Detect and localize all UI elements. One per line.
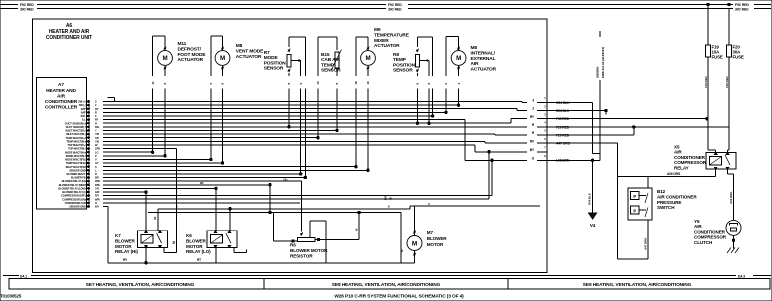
svg-text:F20 RED: F20 RED [725, 76, 729, 88]
svg-text:FOOT MODE: FOOT MODE [178, 52, 207, 58]
svg-text:TOP M/ACT(M+): TOP M/ACT(M+) [67, 143, 85, 147]
svg-text:ILL: ILL [82, 118, 86, 122]
svg-text:SOL: SOL [81, 114, 87, 118]
svg-text:R/G: R/G [95, 125, 99, 129]
svg-text:BAT: BAT [81, 110, 86, 114]
svg-text:BLOWER RELAY (A): BLOWER RELAY (A) [62, 190, 85, 194]
svg-text:BLOWER RELAY (MED): BLOWER RELAY (MED) [59, 183, 86, 187]
svg-text:R: R [95, 110, 97, 114]
svg-text:GY: GY [95, 161, 99, 165]
svg-text:30C RED: 30C RED [735, 8, 749, 12]
svg-text:SE8 HEATING, VENTILATION, AIR/: SE8 HEATING, VENTILATION, AIR/CONDITIONI… [332, 282, 441, 288]
svg-text:B/Y: B/Y [95, 205, 99, 209]
svg-text:CONDITIONER UNIT: CONDITIONER UNIT [46, 35, 92, 41]
svg-text:P: P [633, 208, 636, 213]
svg-text:TEMP: TEMP [321, 62, 335, 68]
svg-text:16: 16 [366, 81, 370, 85]
svg-text:CONDITIONER: CONDITIONER [45, 99, 78, 105]
svg-text:DEFROST/: DEFROST/ [178, 46, 202, 52]
svg-text:Y3+: Y3+ [283, 177, 288, 181]
svg-text:BLOWER M/ACT: BLOWER M/ACT [66, 172, 86, 176]
svg-text:MODE M/ACT(FB): MODE M/ACT(FB) [65, 158, 85, 162]
svg-text:INLET M/ACT(M+): INLET M/ACT(M+) [65, 129, 85, 133]
svg-text:M: M [220, 55, 225, 62]
svg-text:CLUTCH: CLUTCH [694, 240, 713, 245]
svg-text:MODE M/ACT(M-): MODE M/ACT(M-) [66, 154, 86, 158]
svg-text:TEMP M/ACT(M+): TEMP M/ACT(M+) [66, 136, 86, 140]
svg-text:LG: LG [95, 150, 98, 154]
svg-text:SENSOR GND: SENSOR GND [69, 168, 85, 172]
svg-text:FUSE: FUSE [733, 55, 744, 60]
svg-text:PRESSURE: PRESSURE [657, 200, 681, 205]
svg-text:INLET M/ACT(M-): INLET M/ACT(M-) [66, 132, 86, 136]
svg-text:DUCT SENSOR(+): DUCT SENSOR(+) [65, 121, 86, 125]
svg-text:F9C RED: F9C RED [20, 3, 34, 7]
svg-text:T01030525: T01030525 [0, 294, 22, 299]
svg-text:K6: K6 [186, 233, 192, 238]
svg-text:M7: M7 [427, 230, 434, 235]
svg-text:SW (-): SW (-) [79, 103, 86, 107]
svg-text:RY: RY [95, 118, 99, 122]
svg-text:MOTOR: MOTOR [427, 242, 444, 247]
svg-text:M: M [162, 55, 167, 62]
svg-text:R6: R6 [290, 243, 296, 248]
svg-text:VENT MODE: VENT MODE [236, 48, 264, 54]
svg-text:AIR CONDITIONER: AIR CONDITIONER [657, 194, 697, 199]
svg-text:R8: R8 [393, 52, 399, 58]
svg-text:TEMPERATURE: TEMPERATURE [374, 32, 410, 38]
svg-text:AIR: AIR [471, 61, 480, 67]
svg-text:RESISTOR: RESISTOR [290, 254, 313, 259]
svg-text:CONTROLLER: CONTROLLER [45, 105, 78, 111]
svg-text:SW (+): SW (+) [78, 100, 86, 104]
svg-text:R/W: R/W [95, 183, 100, 187]
svg-text:HEATER AND: HEATER AND [46, 88, 76, 94]
svg-text:F9C RED: F9C RED [388, 3, 402, 7]
svg-text:MODE: MODE [264, 55, 279, 61]
svg-text:Y/G: Y/G [95, 186, 99, 190]
svg-text:R: R [95, 121, 97, 125]
svg-text:M8: M8 [236, 43, 243, 49]
svg-text:30C RED: 30C RED [20, 8, 34, 12]
svg-text:A47 ORG: A47 ORG [644, 237, 648, 250]
svg-text:BLOWER: BLOWER [186, 238, 206, 243]
svg-text:CAB AIR: CAB AIR [321, 57, 341, 63]
svg-text:B12: B12 [657, 189, 666, 194]
svg-text:W/R: W/R [95, 197, 100, 201]
svg-text:RELAY (HI): RELAY (HI) [115, 249, 138, 254]
svg-text:18: 18 [354, 81, 358, 85]
svg-text:SE7 HEATING, VENTILATION, AIR/: SE7 HEATING, VENTILATION, AIR/CONDITIONI… [86, 282, 195, 288]
svg-text:TEMP M/ACT(M-): TEMP M/ACT(M-) [66, 139, 85, 143]
svg-text:BLOWER MOTOR: BLOWER MOTOR [290, 248, 328, 253]
svg-text:BLOWER FB: BLOWER FB [71, 176, 86, 180]
svg-text:RELAY: RELAY [674, 165, 689, 170]
svg-text:A02 ORG: A02 ORG [729, 191, 733, 204]
svg-text:BR: BR [95, 176, 99, 180]
svg-text:BLOWER: BLOWER [115, 238, 135, 243]
svg-text:M8: M8 [471, 45, 478, 51]
svg-text:F9C RED: F9C RED [735, 3, 749, 7]
svg-text:W26 P10 C-RR SYSTEM FUNCTIONAL: W26 P10 C-RR SYSTEM FUNCTIONAL SCHEMATIC… [334, 294, 464, 300]
svg-text:INLET M/ACT(FB): INLET M/ACT(FB) [66, 165, 86, 169]
svg-text:M: M [456, 55, 461, 62]
svg-text:ACTUATOR: ACTUATOR [374, 43, 400, 49]
svg-text:G04 BLK: G04 BLK [588, 192, 592, 205]
svg-text:M: M [412, 240, 417, 247]
svg-text:MOTOR: MOTOR [186, 244, 203, 249]
svg-text:TEMP M/ACT(FB): TEMP M/ACT(FB) [66, 161, 86, 165]
svg-text:Y/B: Y/B [95, 139, 99, 143]
svg-text:Y/R: Y/R [95, 132, 99, 136]
svg-text:GR: GR [95, 136, 99, 140]
svg-text:DA 1: DA 1 [20, 274, 27, 278]
svg-text:A06 ORG: A06 ORG [667, 172, 681, 176]
svg-text:POSITION: POSITION [393, 62, 416, 68]
svg-text:BLOWER RELAY (LOW): BLOWER RELAY (LOW) [58, 186, 85, 190]
svg-text:TEMP: TEMP [393, 57, 407, 63]
svg-text:R7: R7 [264, 50, 270, 56]
svg-text:BLOWER RELAY (HI): BLOWER RELAY (HI) [62, 179, 86, 183]
svg-text:G: G [95, 201, 97, 205]
svg-text:W/B: W/B [95, 179, 100, 183]
svg-text:SENSOR: SENSOR [321, 68, 341, 74]
svg-text:SENSOR GND: SENSOR GND [69, 205, 85, 209]
svg-text:A7: A7 [58, 82, 64, 88]
svg-text:R/Y: R/Y [384, 195, 388, 200]
svg-text:COMPRESSOR (OFF): COMPRESSOR (OFF) [61, 194, 86, 198]
svg-text:M11: M11 [178, 41, 187, 47]
svg-text:AIR: AIR [57, 94, 66, 100]
svg-text:BLOWER: BLOWER [427, 236, 447, 241]
svg-text:P: P [633, 194, 636, 199]
svg-text:ACTUATOR: ACTUATOR [178, 57, 204, 63]
svg-text:31: 31 [151, 81, 155, 85]
svg-text:RT: RT [197, 258, 201, 262]
svg-text:SENSOR: SENSOR [393, 68, 413, 74]
svg-text:DUCT SENSOR(-): DUCT SENSOR(-) [66, 125, 86, 129]
svg-text:EXTERNAL: EXTERNAL [471, 56, 496, 62]
svg-text:R/Y: R/Y [95, 194, 99, 198]
svg-text:B: B [95, 172, 97, 176]
svg-text:F9BK 3C4 A6 (CD PIN F3): F9BK 3C4 A6 (CD PIN F3) [601, 47, 605, 78]
svg-text:M9: M9 [374, 27, 381, 33]
svg-text:MODE M/ACT(M+): MODE M/ACT(M+) [65, 150, 86, 154]
svg-text:B5: B5 [200, 181, 204, 185]
svg-text:ACTUATOR: ACTUATOR [236, 54, 262, 60]
svg-text:POSITION: POSITION [264, 60, 287, 66]
svg-text:S2: S2 [153, 216, 157, 220]
svg-text:M: M [365, 55, 370, 62]
svg-text:SWITCH: SWITCH [657, 205, 675, 210]
svg-text:FUSE: FUSE [712, 55, 723, 60]
svg-text:B15: B15 [321, 52, 330, 58]
svg-text:30C RED: 30C RED [388, 8, 402, 12]
svg-text:15: 15 [316, 81, 320, 85]
svg-text:BAT: BAT [81, 107, 86, 111]
svg-text:INTERNAL/: INTERNAL/ [471, 50, 496, 56]
svg-text:K7: K7 [115, 233, 121, 238]
svg-text:30B BRN: 30B BRN [595, 67, 599, 78]
svg-text:SENSOR: SENSOR [264, 66, 284, 72]
svg-text:SE9 HEATING, VENTILATION, AIR/: SE9 HEATING, VENTILATION, AIR/CONDITIONI… [583, 282, 692, 288]
svg-text:RELAY (LO): RELAY (LO) [186, 249, 211, 254]
svg-text:MOTOR: MOTOR [115, 244, 132, 249]
svg-text:RV: RV [95, 107, 99, 111]
svg-text:V4: V4 [590, 223, 596, 228]
svg-text:F19 RED: F19 RED [704, 76, 708, 88]
svg-text:G/W: G/W [95, 147, 100, 151]
svg-text:G/R: G/R [95, 190, 99, 194]
svg-text:MIXER: MIXER [374, 38, 389, 44]
svg-text:DA 3: DA 3 [738, 274, 745, 278]
svg-text:COMPRESSOR (ON): COMPRESSOR (ON) [62, 197, 86, 201]
svg-text:ACTUATOR: ACTUATOR [471, 67, 497, 73]
svg-text:CONDENSER FAN: CONDENSER FAN [65, 201, 86, 205]
svg-text:TOP M/ACT(M-): TOP M/ACT(M-) [68, 147, 86, 151]
